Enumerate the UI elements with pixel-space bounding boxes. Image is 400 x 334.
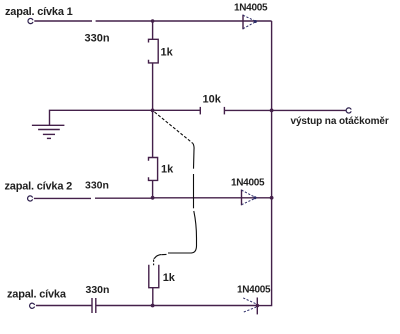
capacitor C2 330n (gap) [95,197,153,199]
diode D3 [243,298,259,315]
label 1k R1 [161,46,174,58]
wire row2 right [153,197,272,199]
node zapal. civka 2 label [5,181,73,193]
terminal OUT [346,108,351,113]
capacitor C3 330n [92,298,96,313]
svg-text:330n: 330n [85,180,109,192]
label 10k [203,94,222,106]
wire column mid to R2 [152,110,154,157]
ground [32,125,65,138]
svg-text:výstup na otáčkoměr: výstup na otáčkoměr [291,116,389,127]
node junction mid/column [151,109,155,113]
node zapal. civka 1 label [5,6,73,18]
wire row1 right [153,20,272,22]
node junction row1/column [151,19,155,23]
svg-text:1k: 1k [161,46,174,58]
capacitor C1 330n (gap) [96,20,153,22]
label 330n C1 [85,33,110,45]
terminal T3 [30,303,35,308]
label vystup na otackomer [291,116,389,127]
resistor R2 1k [149,158,158,181]
resistor 10k (gap with end ticks) [200,107,346,115]
wire row2 left [34,197,91,199]
svg-text:1N4005: 1N4005 [234,3,268,14]
terminal T1 [28,18,33,23]
svg-text:1N4005: 1N4005 [237,285,271,296]
node junction mid/bus [270,109,274,113]
wire hand-drawn link (junction to R3 top) [154,112,197,265]
diode D1 [243,15,257,30]
resistor R1 1k [149,39,159,63]
label 1N4005 D2 [231,178,265,189]
node junction row3/column [151,304,155,308]
label 1k R3 [163,272,176,284]
wire row1 left [34,20,92,22]
svg-text:1k: 1k [161,164,174,176]
wire row3 left [36,305,92,307]
svg-text:330n: 330n [85,33,110,45]
terminal T2 [28,196,33,201]
svg-text:zapal. cívka: zapal. cívka [7,289,67,301]
svg-text:zapal. cívka 2: zapal. cívka 2 [5,181,73,193]
wire R3 to row3 [152,288,154,306]
wire bus right vertical [257,21,271,306]
node zapal. civka 3 label [7,289,67,301]
ground rail wire [50,110,201,125]
svg-text:1k: 1k [163,272,176,284]
node junction row2/bus [270,196,274,200]
label 1N4005 D3 [237,285,271,296]
wire column R2 to row2 [152,180,154,197]
label 1k R2 [161,164,174,176]
resistor R3 1k [149,265,159,288]
diode D2 [242,190,257,206]
svg-text:zapal. cívka 1: zapal. cívka 1 [5,6,73,18]
svg-text:10k: 10k [203,94,222,106]
node junction row2/column [151,196,155,200]
svg-text:1N4005: 1N4005 [231,178,265,189]
label 330n C2 [85,180,109,192]
wire column stub to R1 [152,21,154,39]
svg-text:330n: 330n [86,284,110,296]
label 330n C3 [86,284,110,296]
label 1N4005 D1 [234,3,268,14]
wire column R1 to mid rail [152,63,154,111]
wire row3 right [96,305,257,307]
